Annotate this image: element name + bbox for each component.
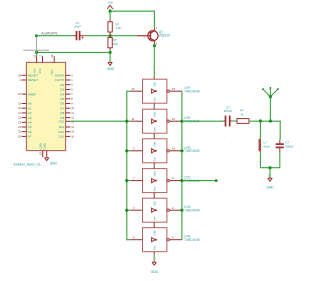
svg-text:D11: D11 <box>59 125 65 129</box>
arduino pin A5 left <box>18 125 32 129</box>
svg-text:22uF: 22uF <box>74 25 81 29</box>
svg-text:A2: A2 <box>28 111 32 115</box>
junction output gate A <box>180 209 183 212</box>
svg-text:Vdd: Vdd <box>153 82 157 87</box>
svg-text:Vss: Vss <box>153 97 157 102</box>
wire input stub gate F <box>127 90 130 92</box>
arduino pin D4 right <box>60 92 73 96</box>
inverter gate U?B 74HC4049 <box>130 225 200 254</box>
arduino pin A1 left <box>18 106 32 110</box>
antenna <box>262 87 279 121</box>
svg-text:5mH: 5mH <box>264 144 270 148</box>
svg-text:GND: GND <box>107 67 115 71</box>
wire Vss-Vdd link 1 <box>153 105 155 107</box>
arduino pin A4 left <box>18 120 32 124</box>
arduino pin A6 left <box>18 130 32 134</box>
arduino pin D5 right <box>60 97 73 101</box>
arduino pin GND bottom 1 <box>38 143 42 157</box>
svg-text:100nF: 100nF <box>224 109 233 113</box>
wire R10k to gnd node <box>109 50 111 52</box>
svg-text:D10: D10 <box>59 120 65 124</box>
ground arduino <box>45 153 58 165</box>
svg-text:AudToRTL: AudToRTL <box>41 32 58 36</box>
arduino pin 3V3 top <box>40 54 43 62</box>
capacitor C7 22uF <box>73 21 85 40</box>
svg-text:74HC4049: 74HC4049 <box>184 90 199 94</box>
svg-text:Vdd: Vdd <box>153 201 157 206</box>
arduino pin A3 left <box>18 116 32 120</box>
svg-text:D1/TX: D1/TX <box>55 78 64 82</box>
svg-text:A0: A0 <box>28 102 32 106</box>
svg-text:3.3k: 3.3k <box>115 26 121 30</box>
inverter gate U?D 74HC4049 <box>130 136 200 165</box>
arduino pin RESET left <box>18 73 38 77</box>
ground gate chain <box>151 254 159 273</box>
output bus <box>181 91 183 240</box>
ground tank <box>266 168 274 190</box>
svg-text:D4: D4 <box>60 92 64 96</box>
svg-text:3V3: 3V3 <box>38 68 42 74</box>
arduino pin RESET left <box>20 78 39 82</box>
junction output gate B <box>181 239 183 241</box>
svg-text:+5V: +5V <box>107 0 114 4</box>
svg-text:D8: D8 <box>60 111 64 115</box>
arduino pin D1/TX right <box>55 78 73 82</box>
svg-text:12: 12 <box>172 117 176 121</box>
junction base node <box>109 34 112 37</box>
junction output gate E <box>180 120 183 123</box>
svg-text:D5: D5 <box>60 97 64 101</box>
arduino pin D6 right <box>60 102 73 106</box>
wire output bus to C coupling <box>182 120 223 122</box>
svg-text:Vdd: Vdd <box>153 112 157 117</box>
svg-text:A7: A7 <box>28 135 32 139</box>
wire Vss-Vdd link 2 <box>153 135 155 136</box>
svg-text:Vss: Vss <box>153 127 157 132</box>
svg-text:1k: 1k <box>240 112 244 116</box>
wire C to R <box>233 120 237 122</box>
svg-text:D3: D3 <box>60 88 64 92</box>
svg-text:A5: A5 <box>28 125 32 129</box>
svg-text:AREF: AREF <box>28 92 36 96</box>
svg-text:Vss: Vss <box>153 216 157 221</box>
svg-text:A1: A1 <box>28 106 32 110</box>
arduino pin A2 left <box>18 111 32 115</box>
svg-text:GND: GND <box>151 270 159 274</box>
svg-text:Vdd: Vdd <box>153 230 157 235</box>
svg-text:GND: GND <box>266 186 274 190</box>
inductor L? 5mH <box>259 121 270 168</box>
input bus <box>126 91 128 241</box>
wire +5V node to R3.3k <box>109 11 111 20</box>
svg-text:Vss: Vss <box>153 156 157 161</box>
wire +5V to collector <box>110 11 155 28</box>
wire +5V stub <box>109 9 111 11</box>
svg-text:Vdd: Vdd <box>153 141 157 146</box>
arduino pin A7 left <box>18 134 32 138</box>
wire tank bottom rail <box>260 167 280 169</box>
wire AudToRTL to C7 <box>36 35 72 37</box>
wire C7 to base node <box>85 35 137 37</box>
wire R to tank <box>249 120 281 122</box>
svg-text:Vss: Vss <box>153 186 157 191</box>
arduino pin D0/RX right <box>55 73 73 77</box>
junction divider gnd node <box>109 51 112 54</box>
svg-text:10k: 10k <box>113 42 118 46</box>
transistor Q? 2N2219 <box>137 26 170 46</box>
arduino pin VIN top <box>51 54 54 62</box>
svg-text:RESET: RESET <box>28 74 38 78</box>
arduino pin D9 right <box>60 116 74 120</box>
junction output gate C <box>180 179 183 182</box>
capacitor C? 500pF <box>276 121 294 168</box>
arduino part label <box>14 162 43 166</box>
svg-text:11: 11 <box>132 117 135 121</box>
arduino pin D10 right <box>59 119 75 123</box>
svg-text:500pF: 500pF <box>285 144 294 148</box>
svg-text:15: 15 <box>172 87 176 91</box>
wire gate C output to stub end <box>182 179 218 182</box>
svg-text:RESET: RESET <box>28 78 38 82</box>
junction output gate F <box>181 90 183 92</box>
grey cross marker <box>23 37 49 53</box>
svg-text:GND: GND <box>42 143 46 149</box>
svg-text:D12: D12 <box>59 130 65 134</box>
net label AudToRTL <box>35 32 58 38</box>
svg-text:A6: A6 <box>28 130 32 134</box>
junction emitter <box>153 44 156 47</box>
arduino pin D12 right <box>59 130 75 134</box>
svg-text:D13: D13 <box>59 135 65 139</box>
arduino pin AREF left <box>18 92 36 96</box>
svg-text:A3: A3 <box>28 116 32 120</box>
arduino top pin names <box>32 68 54 75</box>
arduino pin D2 right <box>60 83 73 87</box>
wire input stub gate C <box>125 179 130 182</box>
ground divider <box>107 52 115 71</box>
wire input stub gate B <box>127 239 130 241</box>
svg-text:Vss: Vss <box>153 245 157 250</box>
svg-text:Vdd: Vdd <box>153 171 157 176</box>
inverter gate U?F 74HC4049 <box>130 77 200 106</box>
arduino pin D11 right <box>59 125 75 129</box>
wire input stub gate E <box>125 120 130 123</box>
inverter gate U?C 74HC4049 <box>130 166 200 195</box>
junction antenna node <box>269 119 272 122</box>
arduino pin D13 right <box>59 134 75 138</box>
arduino pin D3 right <box>60 87 73 91</box>
svg-text:GND: GND <box>50 162 58 166</box>
wire gate F Vdd stub <box>153 46 155 77</box>
resistor R? 1k <box>237 109 249 124</box>
wire gnd node to arduino 5V pin <box>35 51 110 54</box>
wire R3.3k to base node <box>109 34 111 36</box>
junction tank left <box>259 119 262 122</box>
svg-text:10: 10 <box>172 146 176 150</box>
svg-text:D0/RX: D0/RX <box>55 74 64 78</box>
svg-text:74HC4049: 74HC4049 <box>184 209 199 213</box>
svg-text:D7: D7 <box>60 106 64 110</box>
resistor R? 10k <box>108 36 118 50</box>
power +5V <box>107 0 114 9</box>
svg-text:74HC4049: 74HC4049 <box>184 238 199 242</box>
wire Vss-Vdd link 3 <box>153 165 155 166</box>
svg-text:14: 14 <box>131 87 135 91</box>
wire input stub gate D <box>125 149 130 152</box>
junction output gate D <box>180 149 183 152</box>
wire Vss-Vdd link 5 <box>153 224 155 225</box>
resistor R? 3.3k <box>108 20 122 35</box>
svg-text:A4: A4 <box>28 121 32 125</box>
wire Vss-Vdd link 4 <box>153 195 155 196</box>
svg-text:D2: D2 <box>60 83 64 87</box>
capacitor C? 100nF <box>223 105 233 126</box>
svg-text:VIN: VIN <box>50 70 54 75</box>
arduino pin D7 right <box>60 106 74 110</box>
arduino pin A0 left <box>18 102 32 106</box>
arduino pin GND bottom 2 <box>42 143 46 157</box>
arduino pin +5V top <box>34 52 37 62</box>
wire arduino D10 to input bus <box>70 120 126 122</box>
junction +5V node <box>109 10 112 13</box>
arduino pin D8 right <box>60 111 74 115</box>
wire input stub gate A <box>125 209 130 212</box>
junction tank bottom <box>268 166 271 169</box>
svg-text:Arduino_Nano_v3...: Arduino_Nano_v3... <box>14 162 43 166</box>
inverter gate U?E 74HC4049 <box>130 107 200 136</box>
svg-text:2N2219: 2N2219 <box>159 34 170 38</box>
svg-text:D6: D6 <box>60 102 64 106</box>
svg-text:74HC4049: 74HC4049 <box>184 149 199 153</box>
arduino body <box>26 62 65 150</box>
inverter gate U?A 74HC4049 <box>130 196 200 225</box>
